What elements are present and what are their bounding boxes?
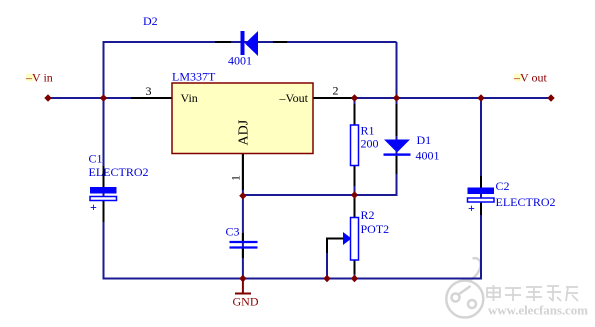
svg-text:3: 3 (146, 84, 152, 98)
svg-text:D2: D2 (143, 14, 158, 28)
svg-text:1: 1 (229, 175, 243, 181)
svg-text:LM337T: LM337T (172, 70, 216, 84)
svg-text:2: 2 (333, 84, 339, 98)
svg-text:C1: C1 (89, 152, 103, 166)
svg-text:GND: GND (233, 295, 259, 309)
svg-text:–V in: –V in (25, 71, 53, 85)
svg-text:ADJ: ADJ (237, 119, 252, 145)
svg-text:D1: D1 (417, 133, 432, 147)
svg-text:R1: R1 (361, 124, 375, 138)
svg-text:+: + (90, 200, 97, 214)
svg-text:4001: 4001 (416, 149, 440, 163)
svg-text:200: 200 (361, 137, 379, 151)
svg-text:C3: C3 (226, 225, 240, 239)
svg-text:–V out: –V out (513, 71, 547, 85)
svg-text:Vin: Vin (181, 91, 198, 105)
svg-text:C2: C2 (496, 179, 510, 193)
svg-text:–Vout: –Vout (279, 91, 309, 105)
svg-text:R2: R2 (361, 208, 375, 222)
svg-text:4001: 4001 (228, 54, 252, 68)
svg-text:ELECTRO2: ELECTRO2 (496, 195, 556, 209)
svg-text:www.elecfans.com: www.elecfans.com (488, 303, 588, 318)
svg-text:POT2: POT2 (361, 222, 390, 236)
svg-text:ELECTRO2: ELECTRO2 (89, 165, 149, 179)
svg-text:+: + (468, 201, 475, 215)
